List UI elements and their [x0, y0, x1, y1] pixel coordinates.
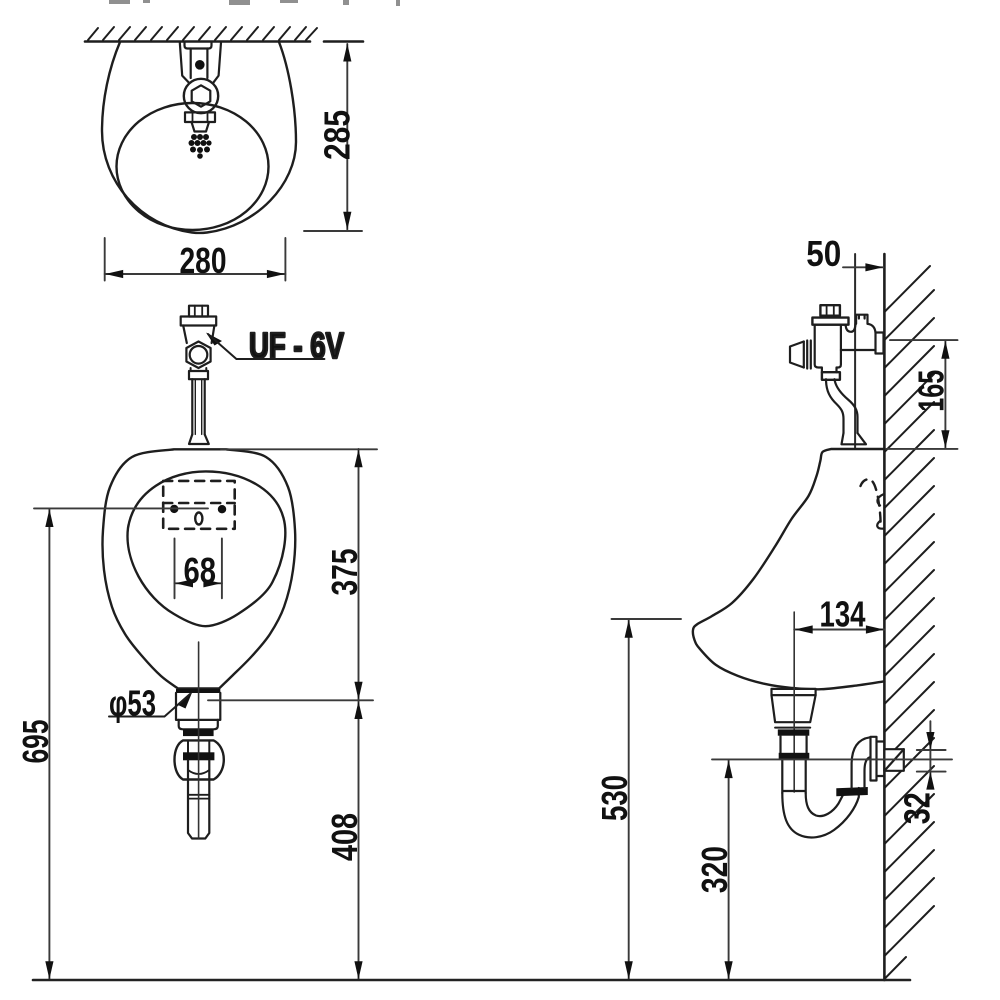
trap U bend inner (side): [806, 793, 844, 816]
svg-text:134: 134: [820, 594, 866, 635]
flush spud top-view: outer funnel: [180, 43, 221, 83]
wall hatching (side view): [884, 266, 934, 979]
spud lower trapezoid (top view): [192, 122, 210, 132]
dim 408 line: [358, 701, 360, 980]
flush spud top-view: inner channel: [191, 49, 208, 79]
dim 32 tick lines: [917, 750, 946, 772]
drain pipe through nut: [188, 740, 209, 752]
dim 320 line: [728, 760, 730, 980]
svg-text:280: 280: [180, 240, 227, 281]
phi53 leader arrowhead: [178, 692, 193, 709]
drain lock nut (front): [175, 740, 224, 779]
valve inlet pipe bottom line (side): [841, 349, 876, 351]
drain spud dark top bar: [176, 689, 220, 693]
top edge artifacts: [109, 0, 400, 6]
urinal body profile (side): [693, 449, 885, 689]
drain pipe (side): [781, 736, 807, 753]
front center line: [198, 642, 200, 838]
dim 375 extension top: [221, 448, 377, 450]
valve pipe flare (side): [842, 433, 867, 444]
flush valve top flange (front): [181, 317, 217, 326]
dim 285 line: [346, 44, 348, 230]
trap U bend outer (side): [782, 788, 859, 837]
dim 375 line: [358, 449, 360, 700]
drain band light (side): [775, 727, 810, 729]
dim 320/32 extension line: [712, 758, 952, 760]
drain tail joint lines: [188, 795, 209, 799]
dim 165 arrows: [941, 341, 949, 448]
dim 280 extension lines: [105, 238, 286, 281]
label UF-6V leader line: [208, 334, 324, 359]
sensor window dashed rect: [163, 481, 235, 529]
trap dark band right (side): [836, 787, 868, 796]
valve cap (side): [820, 305, 840, 316]
dim 165 line: [944, 341, 946, 449]
dim 280 line: [105, 273, 286, 275]
svg-text:530: 530: [594, 775, 635, 821]
dim 68 extension lines: [175, 539, 222, 599]
valve body dip (side): [846, 324, 856, 332]
dim 134 arrows: [795, 625, 884, 633]
flush valve cap inner lines: [195, 306, 202, 317]
flush valve neck (front): [191, 368, 207, 371]
svg-text:68: 68: [184, 550, 217, 591]
wall line gap segment right: [324, 40, 363, 43]
svg-text:408: 408: [324, 813, 365, 861]
flush valve circle (top view): [184, 79, 218, 113]
flush pipe inner walls: [195, 379, 201, 434]
dim 165 extension top: [890, 339, 958, 341]
dim 32 arrows: [926, 732, 934, 790]
dim 165 extension bottom: [886, 448, 958, 450]
svg-text:50: 50: [806, 233, 841, 274]
dim 134 line: [794, 629, 884, 631]
dim 32 line: [929, 721, 931, 786]
svg-text:φ53: φ53: [109, 683, 156, 724]
dim 285 extension bottom: [304, 230, 362, 232]
flush pipe flare (front): [189, 434, 209, 444]
dim 280 arrows: [105, 270, 285, 278]
dim 695 arrows: [45, 509, 53, 979]
urinal outer body (top view): [102, 42, 296, 233]
flush valve hex nut (top view): [192, 85, 211, 106]
label UF-6V leader arrowhead: [206, 333, 222, 346]
dim 68 arrows: [175, 579, 221, 587]
dim 50 arrow: [865, 263, 883, 271]
sprayer dots cluster: [189, 134, 212, 159]
valve top flange (side): [812, 318, 848, 325]
dim 408 arrows: [354, 701, 362, 979]
flush valve lower flange (front): [189, 371, 208, 379]
valve cap inner lines (side): [827, 305, 834, 316]
dim 50 line: [843, 266, 883, 268]
spud flange inner lines: [193, 112, 208, 122]
urinal inner rim (front): [128, 471, 286, 626]
wall line (side view): [883, 254, 886, 980]
drain flange (side): [772, 689, 816, 695]
trap centerline (side): [793, 612, 795, 792]
flush valve hex nut (front): [186, 342, 210, 369]
wall hatching (top view): [88, 27, 317, 40]
flush valve circle (front): [190, 346, 208, 364]
sensor mounting dot right: [218, 505, 226, 513]
svg-text:320: 320: [694, 846, 735, 893]
floor line: [33, 979, 910, 982]
sensor mounting dot left: [170, 505, 178, 513]
drain body taper (side): [772, 695, 816, 722]
dim 320 arrows: [725, 760, 733, 979]
phi53 leader line: [109, 694, 190, 717]
flush valve cap (front): [189, 306, 208, 317]
valve wall connector rect (side): [856, 315, 867, 324]
valve wall elbow (side): [868, 324, 876, 333]
sensor small 0 slot: [195, 513, 202, 525]
spud flange (top view): [185, 112, 215, 122]
drain hook solid curve (side): [877, 494, 884, 529]
trap elbow to wall (side): [852, 737, 870, 788]
flush spud top-view: upper bracket: [185, 43, 212, 49]
svg-text:UF - 6V: UF - 6V: [249, 325, 344, 366]
drain spud neck (front): [179, 720, 218, 729]
drain tail inner curve: [188, 770, 209, 774]
svg-text:165: 165: [911, 370, 952, 412]
valve wall flange plate (side): [876, 333, 884, 354]
dim 695 line: [48, 509, 50, 980]
dim 530 arrows: [625, 620, 633, 980]
dim 530 extension top: [612, 618, 682, 620]
valve button cup (side): [790, 342, 804, 368]
urinal outer body (front): [102, 449, 295, 688]
hidden drain dashed ellipse (side): [861, 479, 881, 525]
drain dark band 2 (side): [779, 753, 810, 760]
dim 375 arrows: [354, 449, 362, 700]
drain spud rect (front): [176, 693, 220, 720]
svg-text:695: 695: [15, 720, 56, 764]
valve centerline (side): [854, 254, 856, 448]
wall line (top view): [85, 40, 310, 43]
dim 285 arrows: [343, 44, 351, 230]
dim 375/408 extension middle: [208, 699, 373, 701]
valve lower flange (side): [822, 372, 840, 380]
drain tail pipe (front): [188, 760, 209, 838]
svg-text:32: 32: [897, 792, 938, 824]
through-wall pipe (side): [884, 749, 903, 771]
valve button plates (side): [804, 341, 811, 369]
valve body (side): [815, 325, 846, 373]
svg-text:285: 285: [317, 110, 358, 160]
drain dark band 2 (front): [183, 752, 214, 760]
trap down pipe (side): [782, 760, 805, 793]
drain dark band 1 (side): [778, 729, 810, 735]
dim 530 line: [628, 620, 630, 980]
dim 68 line segments: [175, 582, 222, 584]
drain dark band 1 (front): [183, 729, 214, 736]
valve outlet S-pipe (side): [826, 379, 858, 433]
flush valve body taper (front): [183, 326, 214, 344]
flush pipe (front): [192, 379, 204, 434]
wall flange plates (side): [871, 737, 885, 781]
flush spud screw dot: [195, 60, 205, 70]
dim 695 extension top: [34, 507, 208, 509]
urinal inner rim oval (top view): [117, 103, 269, 230]
svg-text:375: 375: [324, 549, 365, 596]
